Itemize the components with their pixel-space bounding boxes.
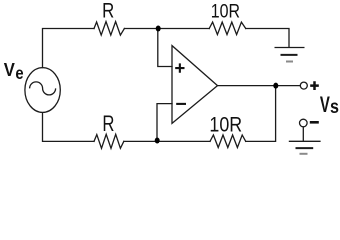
sine wave inside source bbox=[30, 82, 56, 95]
lower terminal (open circle) bbox=[300, 119, 308, 127]
op-amp - input sign bbox=[176, 103, 186, 105]
op-amp + input sign bbox=[175, 63, 184, 72]
resistor R1 (R, top) bbox=[94, 22, 124, 35]
svg-text:e: e bbox=[15, 64, 23, 84]
svg-text:V: V bbox=[4, 59, 15, 80]
output node junction dot bbox=[273, 83, 278, 89]
wire node B to op-amp - input bbox=[157, 104, 172, 142]
wire top-left: source top to resistor R1 bbox=[43, 29, 95, 68]
op-amp U1 triangle bbox=[172, 46, 218, 124]
ground bottom-right bbox=[289, 141, 321, 154]
svg-text:10R: 10R bbox=[211, 0, 240, 22]
wire top-right: 10R to ground bbox=[246, 29, 289, 48]
resistor R4 (10R, bottom feedback) bbox=[210, 135, 246, 148]
minus sign at lower terminal bbox=[310, 121, 319, 124]
wire terminal stub to ground bbox=[302, 127, 304, 141]
output terminal + (open circle) bbox=[300, 82, 307, 89]
resistor R3 (R, bottom) bbox=[94, 134, 124, 148]
svg-text:R: R bbox=[102, 112, 114, 137]
wire node A to op-amp + input bbox=[158, 29, 172, 67]
wire top middle: R1 to node A bbox=[124, 28, 209, 30]
voltage source ve (AC) bbox=[25, 68, 60, 113]
svg-text:10R: 10R bbox=[209, 113, 242, 137]
node B junction dot bbox=[155, 138, 160, 144]
ground top-right bbox=[275, 48, 305, 62]
wire feedback up to output node bbox=[246, 86, 276, 142]
plus sign at output terminal bbox=[310, 81, 319, 90]
node A junction dot bbox=[156, 26, 161, 32]
svg-text:R: R bbox=[102, 0, 114, 23]
wire source bottom bbox=[43, 113, 95, 142]
resistor R2 (10R, top) bbox=[209, 22, 246, 34]
wire node B to 10R bottom bbox=[124, 140, 210, 142]
wire op-amp output to terminal bbox=[218, 85, 301, 87]
svg-text:V: V bbox=[320, 92, 330, 117]
svg-text:s: s bbox=[330, 96, 339, 118]
